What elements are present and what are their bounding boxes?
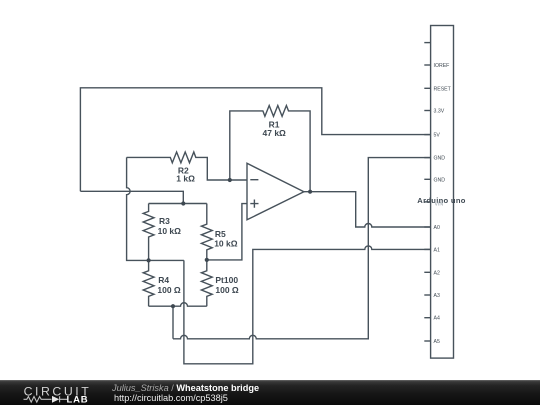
Arduino uno connector box	[431, 26, 454, 359]
node minus input junction	[228, 178, 232, 182]
wire GND chain: bridge bottom to Arduino GND with hops	[173, 158, 431, 339]
svg-text:R5: R5	[215, 229, 226, 239]
pin tick A3	[424, 294, 430, 296]
svg-text:IOREF: IOREF	[434, 63, 450, 69]
pin tick RESET	[424, 87, 430, 89]
svg-text:Pt100: Pt100	[215, 275, 238, 285]
node R5/Pt100 junction	[205, 258, 209, 262]
svg-text:100 Ω: 100 Ω	[215, 285, 239, 295]
wire A1 chain: R3/R4 node down around bottom up to A1 pin with hop	[184, 246, 431, 364]
svg-text:10 kΩ: 10 kΩ	[158, 226, 182, 236]
svg-text:1 kΩ: 1 kΩ	[176, 174, 195, 184]
footer bar	[0, 380, 540, 405]
pin tick 5V	[424, 134, 430, 136]
pin tick A1	[424, 248, 430, 250]
node bridge top feed junction	[181, 201, 185, 205]
node bridge bottom junction	[171, 304, 175, 308]
wire minus node to op-amp inverting input	[230, 179, 247, 181]
svg-text:5V: 5V	[434, 133, 441, 139]
op-amp minus symbol	[250, 179, 258, 181]
svg-text:3.3V: 3.3V	[434, 109, 445, 115]
svg-text:A1: A1	[434, 247, 440, 253]
footer url text	[114, 393, 228, 403]
node R3/R4 junction	[147, 258, 151, 262]
wire 5V feed: bridge top to Arduino 5V	[80, 88, 430, 192]
pin tick GND1	[424, 157, 430, 159]
wire plus chain: R5/Pt100 node to op-amp non-inverting input	[207, 204, 247, 260]
svg-text:R4: R4	[158, 275, 169, 285]
pin tick A5	[424, 340, 430, 342]
CircuitLab logo	[0, 380, 100, 405]
svg-text:100 Ω: 100 Ω	[157, 285, 181, 295]
op-amp U1 triangle	[247, 163, 304, 220]
svg-text:RESET: RESET	[434, 86, 452, 92]
resistor R1	[230, 106, 310, 192]
footer title text	[112, 383, 259, 393]
pin tick 3.3V	[424, 110, 430, 112]
pin tick NC	[424, 42, 430, 44]
pin tick GND2	[424, 178, 430, 180]
svg-text:VIN: VIN	[435, 202, 444, 208]
resistor R5	[201, 204, 212, 260]
svg-text:A0: A0	[434, 225, 440, 231]
resistor R2	[127, 152, 230, 180]
svg-text:GND: GND	[434, 156, 446, 162]
svg-text:A2: A2	[434, 270, 440, 276]
pin tick A4	[424, 317, 430, 319]
pin tick IOREF	[424, 64, 430, 66]
resistor R3	[143, 204, 154, 261]
resistor Pt100	[201, 260, 212, 306]
svg-text:GND: GND	[434, 177, 446, 183]
wire A0 chain: op-amp output to Arduino A0 with hop	[304, 192, 431, 227]
wire feed horizontal to bridge top node	[80, 191, 183, 203]
pin tick A0	[424, 226, 430, 228]
node op-amp output junction	[308, 190, 312, 194]
pin tick A2	[424, 271, 430, 273]
svg-text:A5: A5	[434, 339, 440, 345]
wire bridge top: R3 top to R5 top	[149, 203, 207, 205]
svg-text:LAB: LAB	[67, 395, 89, 405]
svg-text:R3: R3	[159, 216, 170, 226]
wire R2 left lead down to R3/R4 node, with hop over feed wire	[127, 157, 184, 260]
svg-text:10 kΩ: 10 kΩ	[214, 239, 238, 249]
op-amp plus symbol	[250, 200, 258, 208]
resistor R4	[143, 260, 154, 306]
pin tick VIN	[424, 201, 430, 203]
svg-text:A3: A3	[434, 293, 440, 299]
svg-text:47 kΩ: 47 kΩ	[263, 128, 287, 138]
svg-text:A4: A4	[434, 316, 440, 322]
wire bridge bottom: R4 bottom to Pt100 bottom with hop	[149, 303, 207, 306]
